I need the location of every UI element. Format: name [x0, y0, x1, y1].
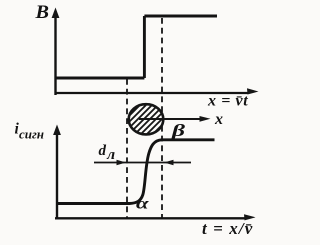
coil cross-section (hatched ellipse) — [129, 104, 164, 134]
svg-text:β: β — [170, 121, 185, 140]
B low level line — [56, 77, 145, 80]
signal current curve (low level, S-rise, high level) — [57, 140, 215, 204]
i-plot vertical axis — [56, 131, 58, 219]
x direction arrow from coil — [139, 118, 201, 120]
svg-text:x = v̄t: x = v̄t — [207, 93, 248, 110]
svg-text:α: α — [136, 196, 150, 213]
B-plot vertical axis — [54, 14, 56, 95]
B-plot horizontal axis — [55, 92, 249, 94]
B-plot vertical axis arrowhead — [52, 8, 60, 19]
coil hatching — [91, 96, 197, 142]
B high level line — [144, 15, 217, 18]
B-plot horizontal axis arrowhead — [247, 88, 259, 94]
svg-text:x: x — [214, 111, 223, 128]
i-plot horizontal axis — [55, 217, 245, 219]
i-plot horizontal axis arrowhead — [244, 214, 256, 220]
i-plot vertical axis arrowhead — [53, 125, 61, 136]
svg-text:t = x/v̄: t = x/v̄ — [202, 219, 253, 238]
right dashed construction line — [161, 18, 163, 218]
left dashed construction line — [126, 79, 128, 218]
dimension arrowhead pointing right — [117, 160, 127, 166]
dimension line for d_л — [94, 162, 191, 164]
svg-text:В: В — [34, 2, 49, 23]
dimension arrowhead pointing left — [164, 160, 174, 166]
B step edge — [143, 16, 146, 78]
